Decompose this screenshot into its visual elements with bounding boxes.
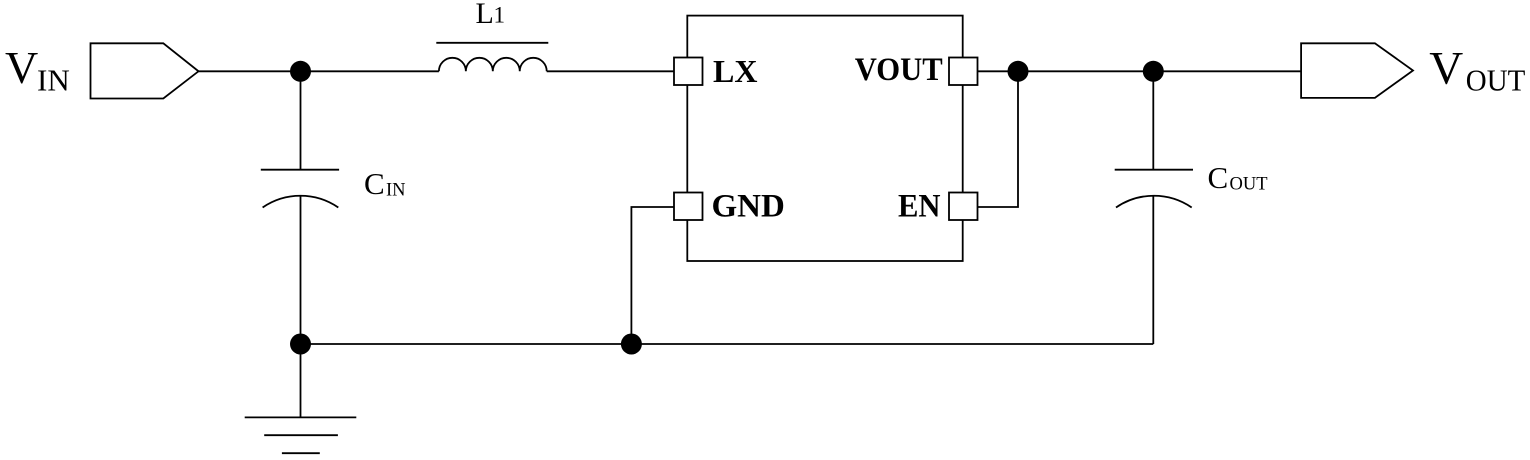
svg-text:OUT: OUT: [1230, 175, 1268, 195]
svg-text:GND: GND: [712, 189, 785, 225]
svg-text:IN: IN: [37, 63, 70, 98]
svg-text:OUT: OUT: [1466, 63, 1526, 98]
pin LX: [674, 58, 703, 86]
capacitor CIN: [261, 170, 339, 208]
label L1: [476, 0, 506, 30]
net label VOUT output connector: [1301, 43, 1413, 98]
svg-text:VOUT: VOUT: [855, 52, 943, 88]
wire node B down to EN pin: [978, 71, 1019, 207]
svg-text:L: L: [476, 0, 494, 30]
node B junction VOUT/EN: [1008, 61, 1029, 82]
wire COUT to ground rail: [1152, 196, 1154, 344]
node C junction VOUT/COUT: [1143, 61, 1164, 82]
wire VOUT pin to output connector: [978, 70, 1302, 72]
IC U1 body: [687, 16, 962, 261]
wire node C down to COUT: [1152, 71, 1154, 169]
node A junction VIN/CIN: [290, 61, 311, 82]
wire GND pin to rail: [631, 207, 674, 344]
label COUT: [1208, 160, 1268, 195]
svg-text:IN: IN: [386, 180, 406, 200]
wire inductor to LX pin: [547, 70, 674, 72]
svg-text:C: C: [364, 166, 385, 201]
svg-text:V: V: [5, 42, 38, 93]
net label VIN text: [5, 42, 70, 98]
capacitor COUT: [1115, 170, 1193, 208]
svg-text:1: 1: [494, 3, 506, 28]
input port connector VIN: [91, 43, 199, 98]
ground symbol: [245, 344, 357, 453]
net label VOUT text: [1429, 43, 1525, 98]
svg-text:V: V: [1429, 43, 1463, 95]
svg-text:LX: LX: [713, 53, 757, 89]
wire node A down to CIN: [300, 71, 302, 169]
pin GND: [674, 193, 703, 221]
node E rail/GND-pin junction: [621, 334, 642, 355]
wire VIN tip to node A and to inductor: [199, 70, 439, 72]
svg-text:EN: EN: [898, 189, 941, 225]
wire CIN to ground rail: [300, 196, 302, 344]
svg-text:C: C: [1208, 160, 1229, 195]
node D rail/ground junction: [290, 334, 311, 355]
pin VOUT: [949, 58, 978, 86]
label CIN: [364, 166, 406, 201]
pin EN: [949, 193, 978, 221]
ground rail wire: [301, 343, 1154, 345]
inductor L1: [436, 43, 548, 72]
